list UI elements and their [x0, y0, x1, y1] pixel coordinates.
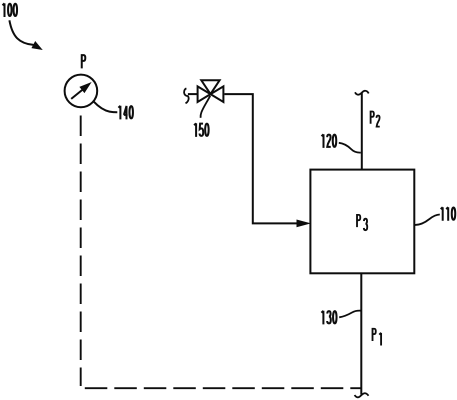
label 100 [3, 3, 18, 17]
label P2 [371, 112, 380, 127]
leader line to label 150 [201, 96, 211, 118]
break squiggle at valve inlet [184, 88, 189, 103]
label P3 [357, 215, 367, 230]
label 140 [118, 106, 133, 120]
wire 130, lower line to P1 [360, 273, 362, 394]
pressure gauge 140 [65, 75, 98, 108]
valve 150 [198, 80, 224, 102]
wire from valve outlet to vessel [224, 94, 297, 223]
valve inlet stub wire [188, 93, 197, 95]
dashed wire from gauge, vertical segment [80, 116, 82, 387]
label P1 [373, 329, 382, 346]
leader line from label 130 to wire [339, 311, 361, 318]
label 110 [441, 207, 456, 221]
label 120 [322, 134, 337, 148]
break squiggle at bottom of wire 130 [355, 393, 369, 397]
break squiggle at top of wire 120 [355, 91, 369, 95]
label 150 [194, 123, 209, 137]
label P (gauge) [82, 55, 86, 68]
leader arrow from label 100 [9, 20, 41, 49]
arrowhead into vessel [297, 220, 309, 226]
wire 120, upper line to P2 [361, 93, 363, 170]
leader line from label 120 to wire [339, 143, 361, 153]
leader line to label 140 [93, 101, 117, 112]
dashed wire along bottom, horizontal segment [85, 387, 362, 389]
leader line from vessel to label 110 [414, 215, 440, 225]
label 130 [321, 311, 336, 325]
gauge needle [71, 83, 90, 99]
vessel 110 [310, 170, 414, 274]
